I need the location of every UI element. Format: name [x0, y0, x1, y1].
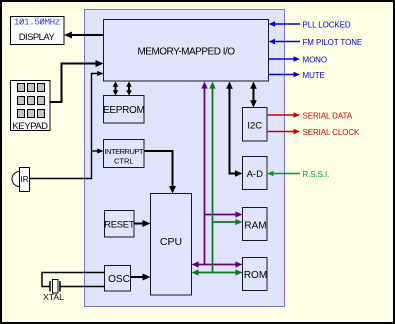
- svg-text:EEPROM: EEPROM: [103, 105, 145, 116]
- svg-text:FM PILOT TONE: FM PILOT TONE: [303, 38, 363, 47]
- svg-text:PLL LOCKED: PLL LOCKED: [303, 21, 351, 30]
- svg-text:KEYPAD: KEYPAD: [12, 121, 48, 132]
- svg-text:MEMORY-MAPPED I/O: MEMORY-MAPPED I/O: [137, 47, 235, 58]
- svg-text:MUTE: MUTE: [303, 71, 325, 80]
- svg-text:INTERRUPT: INTERRUPT: [105, 147, 144, 156]
- svg-text:SERIAL DATA: SERIAL DATA: [303, 112, 353, 121]
- svg-text:XTAL: XTAL: [43, 292, 64, 302]
- svg-text:CPU: CPU: [160, 236, 182, 248]
- svg-text:R.S.S.I.: R.S.S.I.: [303, 170, 330, 179]
- svg-text:I2C: I2C: [247, 121, 262, 132]
- svg-text:DISPLAY: DISPLAY: [19, 32, 56, 43]
- svg-text:RESET: RESET: [104, 220, 135, 231]
- svg-text:ROM: ROM: [244, 270, 267, 281]
- svg-text:CTRL: CTRL: [114, 157, 134, 166]
- svg-text:SERIAL CLOCK: SERIAL CLOCK: [303, 128, 361, 137]
- svg-text:IR: IR: [21, 175, 29, 184]
- svg-text:A-D: A-D: [247, 169, 264, 180]
- svg-text:MONO: MONO: [303, 56, 328, 65]
- svg-text:OSC: OSC: [108, 274, 130, 285]
- svg-text:RAM: RAM: [244, 221, 266, 232]
